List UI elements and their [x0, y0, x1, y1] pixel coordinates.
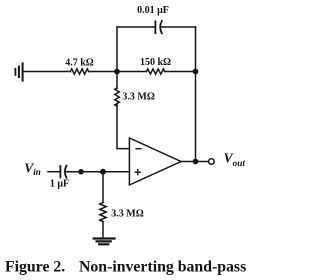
node junction feedback top: [114, 69, 120, 75]
wire right rail down to output: [195, 27, 197, 162]
svg-text:0.01 μF: 0.01 μF: [137, 5, 169, 16]
wire op-amp output to terminal: [181, 161, 209, 163]
ground bottom: [94, 239, 115, 245]
svg-text:1 μF: 1 μF: [50, 178, 69, 189]
wire R2 to right rail: [165, 71, 196, 73]
wire feedback node down to resistor R3: [116, 72, 118, 89]
svg-text:4.7 kΩ: 4.7 kΩ: [65, 58, 94, 69]
wire top left segment to capacitor: [117, 26, 154, 28]
wire C2 to non-inverting input: [65, 171, 129, 173]
wire left vertical of top loop: [116, 27, 118, 72]
resistor R4 3.3 MOhm vertical: [100, 203, 106, 222]
wire R1 to R2: [89, 71, 147, 73]
wire junction down to resistor R4: [102, 172, 104, 203]
output terminal open circle: [209, 159, 215, 165]
wire capacitor to top right corner: [160, 26, 195, 28]
resistor R2 150 kOhm: [147, 69, 165, 74]
svg-text:3.3 MΩ: 3.3 MΩ: [111, 208, 143, 219]
capacitor C1 plates: [155, 21, 161, 33]
node junction right rail: [193, 69, 199, 75]
svg-text:Vin: Vin: [24, 160, 41, 177]
svg-text:Vout: Vout: [224, 151, 246, 168]
node dot after C2: [78, 169, 83, 174]
wire R4 to ground: [102, 222, 104, 239]
svg-text:3.3 MΩ: 3.3 MΩ: [122, 91, 154, 102]
capacitor C2 plates 1 uF: [60, 166, 66, 178]
resistor R3 3.3 MOhm vertical: [115, 88, 120, 106]
resistor R1 4.7 kOhm: [70, 69, 88, 74]
node junction Vin / R4: [100, 169, 106, 175]
svg-text:150 kΩ: 150 kΩ: [140, 57, 171, 68]
wire from left ground to resistor R1: [24, 71, 71, 73]
node junction output: [193, 159, 199, 165]
svg-text:Figure 2.Non-inverting band-pa: Figure 2.Non-inverting band-pass: [5, 258, 246, 275]
ground left: [15, 63, 22, 80]
wire R3 to inverting input: [117, 104, 129, 149]
wire Vin to capacitor C2: [48, 171, 60, 173]
op-amp minus sign: [136, 148, 141, 150]
op-amp U1 triangle: [129, 138, 181, 185]
op-amp plus sign: [135, 170, 140, 175]
